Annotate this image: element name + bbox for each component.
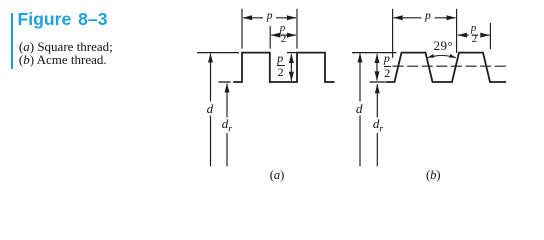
figure (b) 29 degree label	[434, 38, 454, 54]
figure (b) pitch p dimension line with arrows	[394, 17, 422, 19]
figure (b) root-diameter tick	[370, 81, 386, 83]
figure (a) groove fraction bar	[277, 65, 285, 66]
figure (b) left fraction p/2 denominator	[384, 66, 390, 81]
figure (b) dimension d_r leader line with up arrow	[376, 133, 378, 166]
figure (b) label d_r	[373, 116, 383, 135]
figure (a) label d_r	[222, 116, 232, 135]
figure (b) left fraction bar	[384, 66, 392, 67]
figure (b) pitch p right extension line	[456, 9, 458, 53]
figure (b) top fraction p/2 denominator	[472, 33, 478, 45]
figure (b) 29 degree thread-angle arc with arrows	[428, 56, 442, 58]
figure (a) pitch p right extension line	[296, 9, 298, 49]
figure (a) dimension d_r leader line with up arrow	[226, 133, 228, 166]
figure (a) groove fraction p/2 numerator	[277, 51, 283, 66]
figure (b) top p/2 dimension line with arrows and fraction bar	[458, 34, 469, 36]
figure (a) label d	[207, 101, 214, 117]
figure (a) caption label	[270, 168, 285, 183]
figure (b) label d	[356, 101, 363, 117]
figure (b) p/2 right extension line	[489, 23, 491, 49]
caption line b	[19, 52, 107, 68]
figure (a) dimension d leader line with up arrow	[210, 116, 212, 167]
figure (a) root-diameter tick	[218, 81, 230, 83]
figure (a) top p/2 dimension line with arrows and fraction bar	[271, 34, 279, 36]
figure title: Figure 8-3	[18, 9, 108, 30]
figure (a) top fraction p/2 denominator	[281, 33, 287, 45]
blue sidebar rule	[11, 13, 13, 69]
figure (b) vertical p/2 depth arrow	[376, 54, 378, 68]
figure (b) pitch p left extension line	[392, 9, 394, 58]
figure (a) label p (pitch)	[267, 10, 273, 22]
figure (a) p/2 middle extension line	[269, 26, 271, 49]
caption line a	[19, 39, 113, 55]
figure (a) groove fraction p/2 denominator	[278, 65, 284, 80]
figure (a) vertical p/2 depth arrow	[290, 54, 292, 68]
figure (b) acme thread: major-diameter reference line	[352, 52, 396, 54]
figure (a) square thread profile outline	[233, 53, 334, 82]
figure (b) dashed pitch line	[393, 65, 507, 67]
figure (b) label p (pitch)	[425, 10, 431, 22]
figure (a) groove crest tick	[287, 52, 297, 54]
figure (a) top fraction p/2 numerator	[280, 22, 286, 34]
figure (a) pitch p left extension line	[241, 9, 243, 49]
figure (b) top fraction p/2 numerator	[471, 22, 477, 34]
figure (a) square thread: major-diameter reference line	[197, 52, 239, 54]
figure (b) dimension d leader line with up arrow	[359, 116, 361, 167]
figure (b) acme thread profile outline	[386, 53, 506, 82]
figure (a) pitch p dimension line with arrows	[243, 17, 263, 19]
figure (b) caption label	[426, 168, 441, 183]
figure (b) left fraction p/2 numerator	[384, 51, 390, 66]
